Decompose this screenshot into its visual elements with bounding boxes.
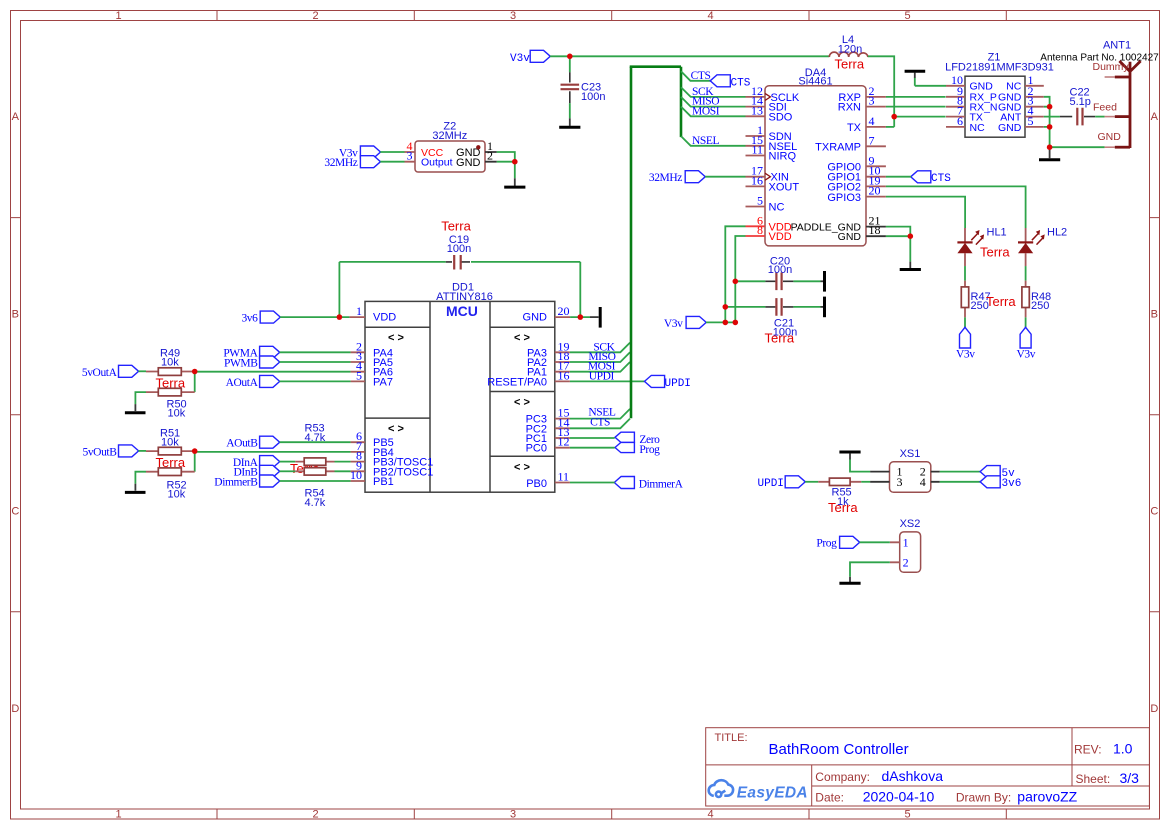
flag V3v (HL2) <box>1020 327 1031 348</box>
svg-text:16: 16 <box>558 368 570 382</box>
svg-text:B: B <box>1151 309 1158 321</box>
XS1 pin numbers <box>897 464 926 488</box>
wire PWMB <box>280 361 351 363</box>
svg-text:AOutA: AOutA <box>226 377 259 389</box>
svg-text:13: 13 <box>751 103 763 117</box>
svg-text:4.7k: 4.7k <box>305 432 326 444</box>
frame column ticks top <box>217 11 1006 21</box>
wire XS1 pin1 to ground <box>850 460 870 472</box>
wire Prog (PC0) <box>570 447 615 449</box>
flag AOutA <box>260 375 280 387</box>
svg-text:C: C <box>1150 506 1158 518</box>
frame row letters right <box>1150 111 1158 715</box>
wire RXN to Z1 <box>886 106 946 108</box>
svg-text:16: 16 <box>751 173 763 187</box>
wire PADDLE_GND/GND <box>886 227 910 237</box>
svg-text:10: 10 <box>350 468 362 482</box>
Z1 pin stubs left <box>946 86 965 127</box>
node junction TX/Z1 <box>891 114 897 120</box>
capacitor C23 <box>561 56 580 118</box>
svg-text:Feed: Feed <box>1093 101 1117 113</box>
flag 3v6 <box>980 476 1000 488</box>
antenna pin Feed <box>1105 116 1115 118</box>
ground under Z1 rail <box>1049 147 1051 158</box>
svg-text:10k: 10k <box>168 489 186 501</box>
mcu section markers <box>388 332 530 474</box>
DA4 pin stubs right <box>866 97 886 197</box>
flag UPDI (XS1) <box>785 476 805 488</box>
svg-text:PB1: PB1 <box>373 476 394 488</box>
svg-text:B: B <box>12 309 19 321</box>
svg-text:CTS: CTS <box>731 77 751 89</box>
DA4 pin numbers left <box>751 84 763 208</box>
svg-text:4.7k: 4.7k <box>305 497 326 509</box>
wire XS1 pin4 to 3v6 flag <box>940 481 980 483</box>
capacitor C22 <box>1044 108 1105 126</box>
oscillator Z2 <box>415 141 485 172</box>
svg-text:4: 4 <box>920 475 926 489</box>
svg-text:Terra: Terra <box>835 57 865 72</box>
wire RXP to Z1 <box>886 96 946 98</box>
svg-text:PWMB: PWMB <box>224 357 258 369</box>
ground right of C20 <box>821 280 824 282</box>
svg-text:PB0: PB0 <box>526 478 547 490</box>
frame row ticks right <box>1150 218 1160 612</box>
flag 5v <box>980 466 1000 478</box>
wire CTS (PC2) <box>570 419 630 429</box>
svg-text:HL2: HL2 <box>1047 227 1067 239</box>
svg-text:Terra: Terra <box>441 219 471 234</box>
svg-text:Date:: Date: <box>815 791 844 805</box>
svg-text:5vOutB: 5vOutB <box>82 446 117 458</box>
svg-text:2: 2 <box>312 809 318 821</box>
Z1 pin names left <box>970 81 998 134</box>
svg-text:PA7: PA7 <box>373 376 393 388</box>
mcu pin numbers right <box>558 304 570 483</box>
wire R54 to PB2 <box>335 470 351 472</box>
svg-text:2: 2 <box>487 149 493 163</box>
DA4 pin numbers right <box>869 84 881 198</box>
svg-text:3: 3 <box>407 149 413 163</box>
flag PWMA <box>260 346 280 358</box>
svg-text:HL1: HL1 <box>987 227 1007 239</box>
Z1 pin numbers left <box>951 73 963 128</box>
wire MOSI (PA1) <box>570 362 630 372</box>
wire Prog to XS2 pin1 <box>860 541 890 543</box>
svg-text:1.0: 1.0 <box>1113 741 1133 757</box>
flag 5vOutA <box>119 365 139 377</box>
svg-text:100n: 100n <box>581 91 605 103</box>
node junctions VDD verticals <box>733 279 739 285</box>
mcu pin names left <box>373 312 433 488</box>
flag V3v (C20/C21) <box>686 316 706 328</box>
wire UPDI (RESET/PA0) <box>570 380 645 382</box>
wire 5vOutA to R49 <box>138 370 146 372</box>
wire R47 to V3v <box>964 317 966 327</box>
Z2 pin1 marker dot <box>476 145 480 149</box>
wire CTS tap <box>681 71 711 81</box>
wire DA4 GND down <box>909 236 911 261</box>
svg-text:ATTINY816: ATTINY816 <box>436 291 493 303</box>
svg-text:C: C <box>11 506 19 518</box>
svg-text:100n: 100n <box>768 264 792 276</box>
svg-text:32MHz: 32MHz <box>432 130 467 142</box>
svg-text:3v6: 3v6 <box>1002 478 1022 490</box>
flag 32MHz (XIN) <box>685 171 705 183</box>
svg-text:10k: 10k <box>168 408 186 420</box>
title block outline <box>706 728 1150 806</box>
node junction Z2 <box>512 159 518 165</box>
XS1 pin stubs <box>870 472 940 482</box>
svg-text:A: A <box>1151 111 1159 123</box>
svg-text:NIRQ: NIRQ <box>769 151 797 163</box>
svg-text:GPIO3: GPIO3 <box>827 192 861 204</box>
svg-text:Prog: Prog <box>816 538 837 550</box>
LED HL1 <box>957 228 984 266</box>
capacitor C21 <box>725 298 820 316</box>
resistor R53 <box>295 458 334 465</box>
flag DInB <box>260 465 280 477</box>
frame column numbers top <box>115 10 910 22</box>
flag Prog (XS2) <box>840 536 860 548</box>
svg-text:UPDI: UPDI <box>665 378 691 390</box>
bus vertical right <box>680 67 683 137</box>
flag DimmerA <box>614 477 634 489</box>
wire R53 to PB3 <box>335 461 351 463</box>
flag V3v (HL1) <box>960 327 971 348</box>
svg-text:10k: 10k <box>161 357 179 369</box>
wire R48 to V3v <box>1025 317 1027 327</box>
radio DA4 body <box>765 86 866 246</box>
wire AOutB to PB5 <box>280 441 351 443</box>
svg-text:TXRAMP: TXRAMP <box>815 142 861 154</box>
svg-text:LFD21891MMF3D931: LFD21891MMF3D931 <box>945 62 1054 74</box>
svg-text:5: 5 <box>1028 114 1034 128</box>
node junction pin20 <box>578 314 584 320</box>
svg-text:< >: < > <box>514 332 530 344</box>
antenna symbol <box>1119 61 1140 148</box>
svg-text:XOUT: XOUT <box>769 181 800 193</box>
DA4 pin names left <box>769 92 800 214</box>
svg-text:GND: GND <box>1098 131 1122 143</box>
node junction V3v/C23 <box>567 54 573 60</box>
bus vertical main <box>630 67 633 419</box>
wire 32MHz to Z2 Output <box>380 161 404 163</box>
svg-text:5: 5 <box>904 809 910 821</box>
wire XS1 pin2 to 5v flag <box>940 471 980 473</box>
svg-text:Si4461: Si4461 <box>798 76 832 88</box>
svg-text:3: 3 <box>510 809 516 821</box>
XS2 pin numbers <box>903 535 909 569</box>
svg-text:VDD: VDD <box>373 312 396 324</box>
resistor R48 <box>1022 281 1029 318</box>
DA4 clock wedges <box>765 93 770 180</box>
svg-text:250: 250 <box>1031 300 1049 312</box>
svg-text:3: 3 <box>510 10 516 22</box>
svg-text:5: 5 <box>757 194 763 208</box>
wire DimmerB to PB1 <box>280 480 351 482</box>
svg-text:5.1p: 5.1p <box>1070 96 1091 108</box>
frame column numbers bottom <box>115 809 910 821</box>
svg-text:3: 3 <box>869 94 875 108</box>
svg-text:CTS: CTS <box>931 173 951 185</box>
DA4 pin names right <box>815 92 862 204</box>
node junction Z1 gnd bottom <box>1047 144 1053 150</box>
svg-text:parovoZZ: parovoZZ <box>1017 789 1077 805</box>
capacitor C20 <box>735 273 820 291</box>
wire 3v6 to VDD <box>280 316 349 318</box>
svg-text:4: 4 <box>707 10 713 22</box>
wire GPIO3 to HL1 <box>886 197 965 228</box>
svg-text:MCU: MCU <box>446 303 478 319</box>
svg-text:NC: NC <box>970 122 986 134</box>
antenna pin Dummy <box>1105 76 1115 78</box>
svg-text:TITLE:: TITLE: <box>715 732 748 744</box>
frame row letters left <box>11 111 19 715</box>
flag CTS (top) <box>710 75 730 87</box>
svg-text:DimmerB: DimmerB <box>214 476 258 488</box>
svg-text:NSEL: NSEL <box>692 135 720 147</box>
node junction R51/R52 <box>192 448 198 454</box>
svg-text:dAshkova: dAshkova <box>882 768 944 784</box>
svg-text:AOutB: AOutB <box>226 438 258 450</box>
svg-text:GND: GND <box>998 122 1022 134</box>
svg-text:A: A <box>12 111 20 123</box>
wire MOSI to SDO <box>681 107 746 117</box>
wire AOutA <box>280 380 351 382</box>
resistor R54 <box>295 468 334 475</box>
svg-text:Output: Output <box>421 157 453 169</box>
svg-text:GND: GND <box>456 157 481 169</box>
ground under XS2 <box>849 577 851 583</box>
wire GPIO2 to HL2 <box>886 186 1026 228</box>
svg-text:NC: NC <box>769 202 785 214</box>
junction dot layer <box>192 54 1052 454</box>
frame column ticks bottom <box>217 809 1006 819</box>
Z1 pin stubs right <box>1025 86 1044 127</box>
svg-text:V3v: V3v <box>664 318 683 330</box>
svg-text:GND: GND <box>523 312 548 324</box>
svg-text:120n: 120n <box>838 43 862 55</box>
wire C19 left leg <box>338 262 340 317</box>
svg-text:GND: GND <box>838 231 862 243</box>
flag CTS (GPIO1) <box>911 171 931 183</box>
svg-text:18: 18 <box>869 223 881 237</box>
wire UPDI to R55 <box>805 481 818 483</box>
flag DInA <box>260 456 280 468</box>
svg-text:Terra: Terra <box>828 500 858 515</box>
bus horizontal top <box>630 65 681 68</box>
wire L4 to TX node <box>868 56 894 127</box>
wire Z1 GND10 <box>915 78 946 86</box>
flag 32MHz (Z2) <box>360 156 380 168</box>
svg-text:XS1: XS1 <box>900 448 921 460</box>
wire NSEL (PC3) <box>570 409 630 419</box>
node junction DA4 GND <box>908 233 914 239</box>
svg-text:7: 7 <box>869 133 875 147</box>
svg-text:Company:: Company: <box>815 770 870 784</box>
svg-text:UPDI: UPDI <box>589 370 615 382</box>
svg-text:3/3: 3/3 <box>1120 770 1140 786</box>
svg-text:6: 6 <box>957 114 963 128</box>
svg-text:XS2: XS2 <box>900 518 921 530</box>
svg-text:Terra: Terra <box>765 331 795 346</box>
wire SCK (PA3) <box>570 343 630 353</box>
svg-text:100n: 100n <box>447 243 471 255</box>
svg-text:1: 1 <box>356 304 362 318</box>
Z2 pin stubs <box>405 152 416 162</box>
flag V3v (top) <box>530 50 550 62</box>
ground above Z1 <box>905 70 926 73</box>
capacitor C19 <box>339 255 580 270</box>
wire R50 to ground <box>135 392 146 404</box>
wire V3v to Z2 VCC <box>380 151 404 153</box>
wire V3v to VDD verticals <box>706 321 735 323</box>
svg-text:10k: 10k <box>161 437 179 449</box>
svg-text:2020-04-10: 2020-04-10 <box>863 789 935 805</box>
svg-text:REV:: REV: <box>1074 743 1102 757</box>
resistor R47 <box>961 281 968 318</box>
svg-text:UPDI: UPDI <box>758 478 784 490</box>
svg-text:3: 3 <box>897 475 903 489</box>
svg-text:Prog: Prog <box>639 444 660 456</box>
svg-text:5: 5 <box>904 10 910 22</box>
wire SCK to SCLK <box>681 87 746 97</box>
flag V3v (Z2) <box>360 146 380 158</box>
wire NSEL to NSEL <box>681 136 746 146</box>
wire TX junction to Z1 TX <box>894 116 945 118</box>
svg-text:11: 11 <box>558 470 570 484</box>
svg-text:5: 5 <box>356 368 362 382</box>
mcu pin stubs left <box>349 317 365 481</box>
EasyEDA logo <box>709 780 733 797</box>
svg-text:< >: < > <box>514 462 530 474</box>
wire VDD6 <box>725 226 745 322</box>
mcu pin stubs right <box>555 317 570 482</box>
wire HL1 to R47 <box>964 266 966 281</box>
svg-text:Dummy: Dummy <box>1093 61 1130 73</box>
connector XS2 body <box>900 532 921 572</box>
svg-text:32MHz: 32MHz <box>324 157 357 169</box>
wire VDD8 <box>735 236 745 322</box>
node junction Z1 gnd pin3 <box>1047 104 1053 110</box>
svg-text:MOSI: MOSI <box>692 105 720 117</box>
svg-text:5vOutA: 5vOutA <box>82 367 118 379</box>
node junction Z1 gnd pin5 <box>1047 124 1053 130</box>
wire DInB to R54 <box>280 470 296 472</box>
flag PWMB <box>260 356 280 368</box>
svg-text:8: 8 <box>757 223 763 237</box>
LED HL2 <box>1018 228 1045 266</box>
svg-text:VDD: VDD <box>769 231 792 243</box>
Z1 pin names right <box>998 81 1022 134</box>
flag AOutB <box>260 436 280 448</box>
resistor R51 <box>146 447 195 455</box>
wire R51 junction to PB4 <box>195 451 351 453</box>
wire GPIO1 to CTS flag <box>886 176 911 178</box>
ground under C23 <box>569 118 571 126</box>
svg-text:< >: < > <box>388 332 404 344</box>
svg-text:CTS: CTS <box>691 70 711 82</box>
Z1 pin numbers right <box>1028 73 1034 128</box>
ground under DA4 <box>909 262 911 269</box>
wire XS2 pin2 to ground <box>850 562 890 577</box>
wire HL2 to R48 <box>1025 266 1027 281</box>
flag UPDI <box>645 375 665 387</box>
svg-text:Sheet:: Sheet: <box>1076 772 1111 786</box>
svg-text:20: 20 <box>869 184 881 198</box>
wire 5vOutB to R51 <box>138 450 146 452</box>
svg-text:DimmerA: DimmerA <box>639 478 684 490</box>
mcu pin numbers left <box>350 304 362 482</box>
svg-text:ANT1: ANT1 <box>1103 40 1131 52</box>
XS2 pin stubs <box>890 542 900 562</box>
svg-text:TX: TX <box>847 122 862 134</box>
resistor R49 <box>146 368 195 376</box>
wire MISO (PA2) <box>570 352 630 362</box>
svg-text:1: 1 <box>903 535 909 549</box>
svg-text:12: 12 <box>558 435 570 449</box>
svg-text:V3v: V3v <box>510 53 530 65</box>
DA4 pin stubs left <box>746 97 766 207</box>
flag 3v6 <box>260 311 280 323</box>
svg-text:Drawn By:: Drawn By: <box>956 791 1011 805</box>
svg-text:Terra: Terra <box>986 294 1016 309</box>
ground right of C21 <box>821 306 824 308</box>
mcu DD1 body <box>365 301 555 492</box>
wire Z1 GND right rail <box>1044 97 1050 147</box>
flag Prog <box>615 442 634 452</box>
resistor R55 <box>818 478 861 485</box>
ground under R52 <box>134 484 136 491</box>
svg-text:RXN: RXN <box>838 102 861 114</box>
node junction R49/R50 <box>192 369 198 375</box>
svg-text:< >: < > <box>514 397 530 409</box>
wire TX pin4 <box>886 126 894 128</box>
wire R49 junction to PA6 <box>195 371 351 373</box>
wire PWMA <box>280 351 351 353</box>
wire V3v to L4 <box>550 55 829 57</box>
svg-text:V3v: V3v <box>956 348 975 360</box>
ground above XS1 <box>839 451 860 454</box>
wire R52 to ground <box>135 472 146 484</box>
wire DInA to R53 <box>280 461 296 463</box>
wire C19 right leg <box>579 262 581 317</box>
wire pin20 to ground <box>570 316 590 318</box>
node junction pin1 <box>337 314 343 320</box>
svg-text:1: 1 <box>115 10 121 22</box>
svg-text:1: 1 <box>115 809 121 821</box>
svg-text:Terra: Terra <box>980 245 1010 260</box>
svg-text:D: D <box>1150 703 1158 715</box>
flag Zero <box>615 432 634 442</box>
svg-text:2: 2 <box>903 556 909 570</box>
wire Z2 GND1 to junction <box>497 152 515 162</box>
wire DimmerA (PB0) <box>570 482 615 484</box>
svg-text:V3v: V3v <box>1017 348 1036 360</box>
svg-text:2: 2 <box>312 10 318 22</box>
resistor R52 <box>146 451 195 475</box>
wire Z2 GND2 to junction <box>497 161 515 163</box>
svg-text:SDO: SDO <box>769 111 793 123</box>
mcu pin names right <box>487 312 547 490</box>
connector XS1 body <box>890 462 931 493</box>
flag DimmerB <box>260 475 280 487</box>
svg-text:32MHz: 32MHz <box>649 172 682 184</box>
filter Z1 body <box>965 76 1025 137</box>
ground under R50 <box>134 404 136 411</box>
ground at pin20 <box>590 316 599 318</box>
